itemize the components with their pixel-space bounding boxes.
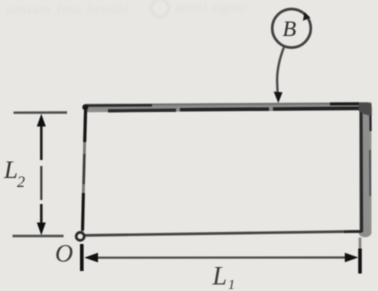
- dimension L2 arrow line: [37, 114, 46, 235]
- dimension L1 right tick: [358, 249, 362, 274]
- svg-text:L: L: [3, 157, 18, 184]
- bottom-right corner dark segment: [344, 230, 362, 233]
- dimension L1 arrow line: [84, 253, 358, 263]
- svg-text:umssm lmo lnnole: umssm lmo lnnole: [6, 2, 130, 18]
- rectangle left edge wire: [82, 104, 88, 231]
- dimension L2 extension line bottom: [13, 235, 64, 238]
- dimension L2 extension line top: [14, 111, 68, 114]
- rectangle top edge (thick shaded bar): [85, 102, 371, 112]
- svg-text:menl ogno: menl ogno: [175, 0, 247, 16]
- svg-text:B: B: [283, 16, 297, 41]
- rectangle bottom edge wire: [85, 231, 360, 235]
- rectangle right edge (thick shaded bar): [359, 102, 372, 250]
- node O marker (open circle at origin): [76, 232, 84, 240]
- label L2: [3, 157, 25, 191]
- label B circle: [272, 9, 311, 48]
- small arrowhead on B circle: [303, 12, 311, 21]
- faint show-through text at top: [6, 0, 247, 18]
- svg-text:O: O: [55, 241, 73, 268]
- dimension L1 left tick: [80, 244, 84, 271]
- svg-text:L: L: [212, 262, 227, 291]
- leader arrow from B to top edge: [274, 48, 284, 104]
- label L1: [212, 262, 236, 291]
- svg-text:1: 1: [228, 278, 235, 291]
- svg-text:2: 2: [17, 174, 25, 191]
